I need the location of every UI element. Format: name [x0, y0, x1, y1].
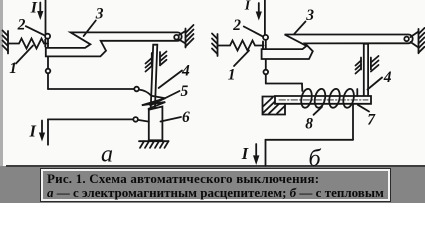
- svg-text:I: I: [29, 122, 37, 141]
- svg-text:2: 2: [232, 17, 241, 34]
- svg-text:4: 4: [383, 69, 392, 86]
- svg-text:I: I: [244, 0, 251, 13]
- svg-text:а: а: [101, 141, 113, 167]
- svg-text:I: I: [30, 0, 38, 17]
- svg-text:6: 6: [182, 109, 190, 126]
- svg-text:I: I: [241, 144, 249, 163]
- svg-text:5: 5: [181, 83, 189, 100]
- svg-text:8: 8: [305, 116, 313, 133]
- svg-text:1: 1: [228, 66, 236, 83]
- svg-text:2: 2: [17, 17, 26, 34]
- svg-text:3: 3: [305, 7, 314, 24]
- svg-text:7: 7: [367, 112, 376, 129]
- svg-text:б: б: [309, 146, 322, 168]
